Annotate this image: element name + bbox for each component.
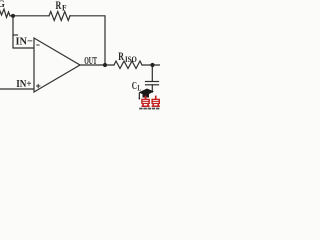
junction node OUT/feedback	[103, 63, 107, 67]
watermark red glyph 2	[151, 96, 160, 107]
wire: inverting input branch from node A	[13, 16, 34, 48]
svg-text:G: G	[0, 0, 6, 10]
svg-text:R: R	[56, 0, 62, 12]
watermark bottom tiny text	[139, 108, 159, 110]
svg-text:F: F	[62, 4, 67, 13]
junction node RISO/CL	[150, 63, 154, 67]
wire: RF to top-right corner, feedback drop to output node	[70, 16, 105, 65]
wire: op-amp output	[80, 64, 114, 66]
resistor RG (cut off at left edge)	[0, 9, 10, 18]
svg-text:L: L	[137, 84, 141, 93]
op-amp minus marker	[36, 44, 39, 46]
watermark logo: black mortarboard cap	[139, 89, 155, 100]
capacitor CL top plate	[146, 81, 159, 83]
junction node A (RG/RF/IN-)	[11, 14, 15, 18]
watermark red glyph 1	[141, 96, 150, 107]
tick above IN- label	[13, 34, 18, 36]
wire: capacitor to ground (behind logo)	[151, 85, 153, 92]
wire: capacitor branch down	[151, 65, 153, 81]
resistor RISO	[114, 61, 142, 69]
svg-text:R: R	[118, 49, 124, 63]
resistor RF	[49, 12, 70, 21]
capacitor CL bottom plate	[146, 84, 159, 86]
svg-text:C: C	[132, 80, 137, 92]
op-amp U1	[34, 38, 80, 92]
wire: IN+ from left edge	[0, 88, 34, 90]
svg-text:OUT: OUT	[84, 56, 97, 67]
wire: RISO to right edge	[142, 64, 160, 66]
svg-text:IN+: IN+	[16, 78, 31, 90]
svg-text:IN−: IN−	[16, 36, 33, 48]
op-amp plus marker	[36, 84, 40, 88]
svg-text:ISO: ISO	[125, 55, 137, 64]
background	[0, 0, 160, 110]
wire: junction A to RF	[10, 15, 49, 17]
